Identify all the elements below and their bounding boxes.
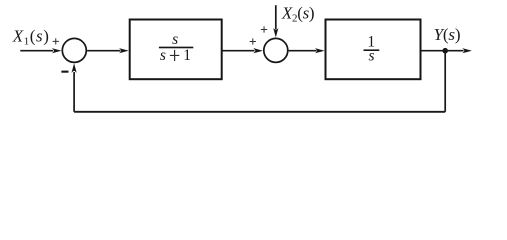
svg-text:s: s: [368, 48, 374, 65]
svg-text:Y(s): Y(s): [434, 25, 461, 44]
svg-text:s: s: [160, 47, 166, 64]
svg-text:s: s: [172, 31, 178, 48]
svg-text:1: 1: [183, 47, 191, 64]
svg-text:X2(s): X2(s): [281, 3, 314, 24]
svg-text:X1(s): X1(s): [12, 26, 50, 47]
